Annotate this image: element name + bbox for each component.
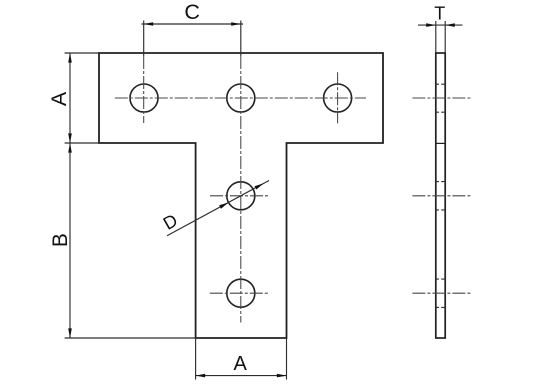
svg-text:B: B: [49, 233, 72, 247]
svg-text:C: C: [184, 0, 200, 24]
svg-text:T: T: [434, 3, 445, 23]
svg-text:A: A: [234, 353, 248, 375]
svg-text:A: A: [47, 91, 71, 106]
